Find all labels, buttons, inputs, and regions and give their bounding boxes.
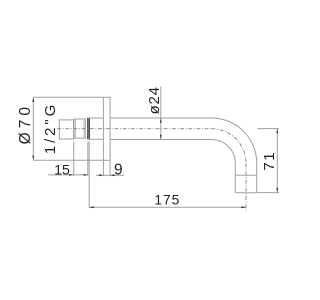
- dim71 bottom extension line: [258, 192, 280, 194]
- dim15 extension line left: [73, 142, 75, 176]
- vertical centerline: [245, 163, 247, 210]
- dia70 dimension line: [32, 97, 34, 160]
- dim9 arrow left outside: [99, 174, 104, 176]
- dia70 arrow up: [32, 97, 34, 102]
- outlet right edge: [256, 163, 258, 193]
- dia24 arrow up: [160, 118, 162, 123]
- dim175 extension line: [88, 142, 90, 208]
- horizontal centerline: [57, 128, 212, 130]
- dia24 dimension line: [160, 87, 162, 140]
- dim9 extension line left: [102, 161, 104, 177]
- dim175 arrow right: [241, 206, 246, 208]
- spout tube bottom line: [110, 138, 211, 140]
- thread inner line left: [75, 119, 77, 138]
- tube through wall bottom line: [89, 138, 103, 140]
- spout tube top line: [110, 117, 211, 119]
- dim15 extension line right: [87, 142, 89, 176]
- tube through wall top line: [89, 117, 103, 119]
- threaded nipple rectangle: [74, 119, 85, 138]
- svg-text:175: 175: [154, 193, 180, 208]
- dia70 bottom leader line: [33, 159, 103, 161]
- svg-text:15: 15: [54, 162, 70, 178]
- dim71 arrow up: [276, 129, 278, 134]
- thread inner line right: [83, 119, 85, 138]
- dia70 arrow down: [32, 156, 34, 161]
- inlet stub rectangle: [59, 120, 73, 139]
- dim71 arrow down: [276, 188, 278, 193]
- dim175 dimension line: [89, 206, 246, 208]
- dim71 top extension line: [258, 128, 280, 130]
- svg-text:9: 9: [114, 161, 123, 178]
- bend outer arc: [212, 118, 257, 163]
- wall flange plate: [103, 97, 110, 160]
- dim15 arrow right: [84, 174, 89, 176]
- dim175 arrow left: [89, 206, 94, 208]
- svg-text:ø24: ø24: [146, 86, 163, 114]
- dim9 extension line right: [109, 160, 111, 176]
- dim15 dimension line: [48, 174, 88, 176]
- collar ring dark line left: [87, 118, 89, 140]
- dia24 arrow down: [160, 135, 162, 140]
- svg-text:1/2"G: 1/2"G: [42, 102, 59, 154]
- outlet left edge: [234, 163, 236, 193]
- svg-text:Ø70: Ø70: [17, 103, 34, 144]
- collar ring dark line right: [88, 118, 90, 140]
- dim9 arrow right outside: [110, 174, 115, 176]
- dim15 arrow left: [69, 174, 74, 176]
- dia70 top leader line: [33, 96, 103, 98]
- dim71 dimension line: [276, 129, 278, 193]
- bend inner arc: [212, 139, 236, 163]
- bend centerline arc: [212, 129, 247, 164]
- outlet bottom edge: [235, 192, 257, 194]
- aerator joint line: [235, 174, 257, 176]
- dim9 dimension line: [96, 174, 124, 176]
- svg-text:71: 71: [261, 151, 278, 171]
